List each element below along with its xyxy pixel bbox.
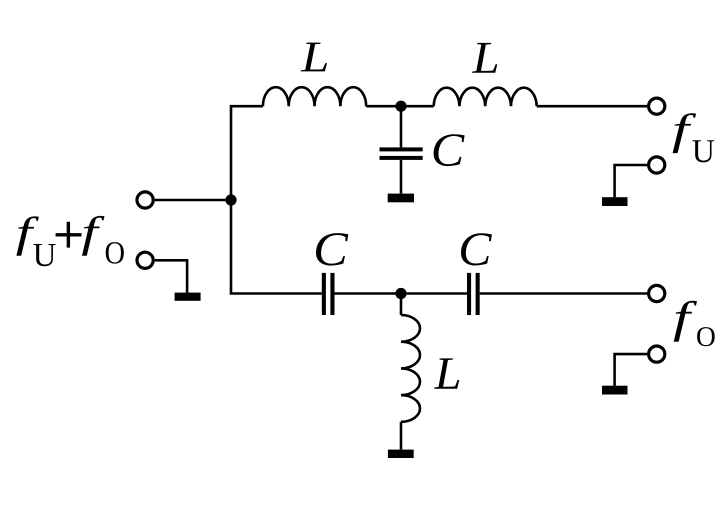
label L3 bbox=[434, 358, 459, 388]
ground capacitor C1 bbox=[388, 194, 414, 203]
terminal input upper bbox=[137, 192, 153, 208]
node D junction dot bbox=[395, 288, 406, 299]
label L1 bbox=[301, 43, 327, 72]
terminal fU upper bbox=[649, 98, 665, 114]
wire L2 to terminal fU bbox=[537, 105, 647, 108]
wire bus: top branch corner, vertical bus, bottom branch start bbox=[231, 106, 322, 293]
wire input to node A bbox=[155, 199, 231, 202]
terminal fO lower bbox=[649, 346, 665, 362]
node B junction dot bbox=[395, 101, 406, 112]
capacitor C2 plates bbox=[322, 273, 326, 315]
label input: plus bbox=[56, 222, 82, 248]
inductor L2 coil bbox=[434, 88, 537, 106]
label fU: f bbox=[673, 113, 697, 153]
wire input lower terminal to ground bbox=[155, 260, 187, 292]
label input: subscript U bbox=[33, 244, 55, 266]
label C3 bbox=[461, 233, 492, 265]
ground input bbox=[175, 293, 201, 301]
terminal fO upper bbox=[649, 285, 665, 301]
label L2 bbox=[472, 43, 497, 73]
ground inductor L3 bbox=[388, 450, 414, 458]
wire bottom branch: C2 to C3 through node D bbox=[335, 292, 468, 295]
wire fO lower terminal to ground bbox=[615, 354, 647, 386]
wire fU lower terminal to ground bbox=[615, 165, 647, 197]
label fO: subscript O bbox=[697, 327, 715, 346]
label fU: subscript U bbox=[693, 140, 715, 162]
ground fU terminal bbox=[602, 197, 628, 206]
label fO: f bbox=[674, 301, 697, 342]
inductor L3 coil bbox=[401, 315, 420, 422]
label input: f bbox=[82, 216, 104, 256]
wire L1 to L2 through node B bbox=[366, 105, 434, 108]
label input: subscript O bbox=[106, 242, 124, 263]
label input: f bbox=[16, 216, 38, 255]
label C2 bbox=[316, 233, 348, 265]
capacitor C3 plates bbox=[467, 273, 471, 315]
label C1 bbox=[434, 134, 465, 166]
capacitor C1 plates bbox=[380, 147, 423, 151]
wire L3 to ground bbox=[400, 422, 403, 450]
terminal input lower bbox=[137, 252, 153, 268]
inductor L1 coil bbox=[263, 87, 366, 106]
node A junction dot bbox=[225, 194, 236, 205]
wire C3 to terminal fO bbox=[480, 292, 647, 295]
wire capacitor C1 bottom plate to ground bbox=[400, 160, 403, 194]
ground fO terminal bbox=[602, 386, 628, 395]
wire node D to inductor L3 bbox=[400, 294, 403, 316]
terminal fU lower bbox=[649, 157, 665, 173]
wire node B to capacitor C1 top plate bbox=[400, 106, 403, 147]
